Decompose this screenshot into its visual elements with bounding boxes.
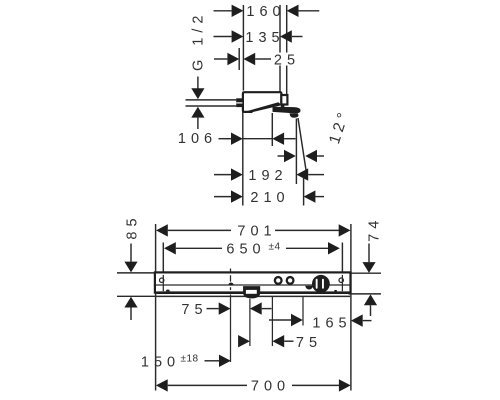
svg-text:160: 160 [246, 4, 285, 20]
svg-text:192: 192 [248, 168, 287, 184]
svg-text:106: 106 [178, 131, 217, 147]
svg-text:85: 85 [125, 213, 141, 239]
svg-text:±4: ±4 [269, 242, 281, 253]
svg-text:135: 135 [245, 30, 284, 46]
svg-text:±18: ±18 [181, 354, 199, 365]
svg-text:150: 150 [141, 355, 180, 371]
svg-text:701: 701 [237, 224, 276, 240]
svg-text:165: 165 [312, 316, 351, 332]
svg-text:210: 210 [250, 190, 289, 206]
svg-text:650: 650 [226, 242, 265, 258]
svg-text:G 1/2: G 1/2 [190, 11, 206, 71]
svg-text:25: 25 [274, 53, 300, 69]
svg-text:75: 75 [296, 335, 322, 351]
svg-text:74: 74 [367, 216, 383, 242]
svg-text:75: 75 [181, 302, 207, 318]
svg-text:700: 700 [251, 379, 290, 395]
